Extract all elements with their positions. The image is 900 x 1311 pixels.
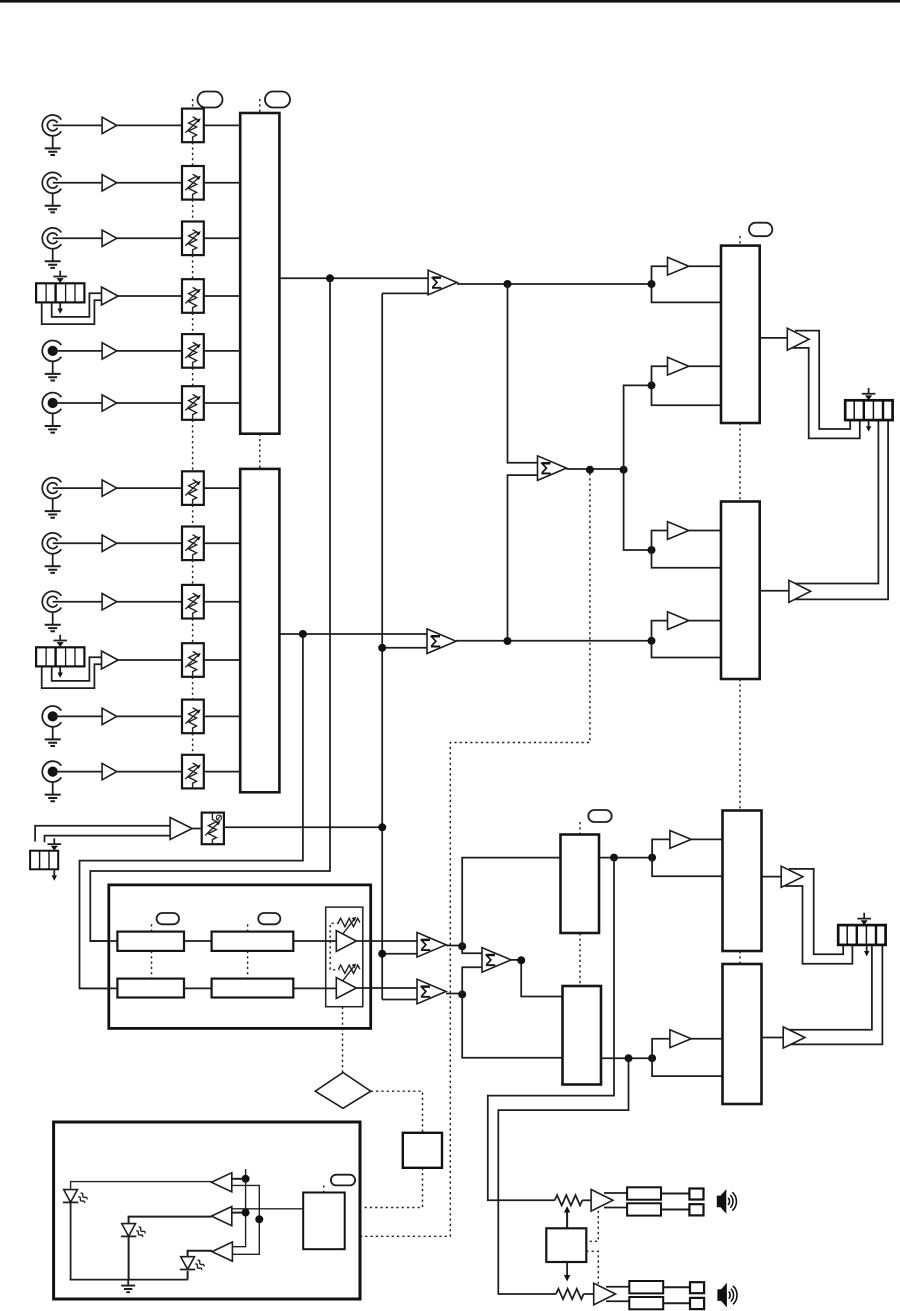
wire drivers2 to terminals [663,1287,690,1303]
wire group1 pair2 buffer to block [689,365,721,367]
EQ block row1 stage1 [117,932,184,951]
pot box ch5 level [182,334,204,368]
wire node down to monitor select 2 [462,994,562,1057]
wire bank2 tap down to EQ row2 [80,634,303,988]
level resistor speaker 1 [555,1195,583,1205]
pot element ch4 [185,287,201,312]
wire ch1 pot to selector [204,124,240,126]
wiper arrow down volume block [564,1262,570,1281]
junction effect bus at return [378,823,386,831]
wire group2 pair1 direct branch [652,550,722,568]
wire group2 pair2 buffer to block [689,620,721,622]
wire effect bus to U2 lower input [382,647,427,649]
pot box return level [202,813,224,845]
comparator amp level1 [211,1173,231,1192]
drain arrow below connector P1 [58,303,63,314]
drain arrow below connector P2 [58,667,63,678]
wire ch7 jack to buffer [53,487,102,489]
buffer amp group1 pair2 [668,357,689,375]
wire group2 output to line amp [760,590,789,592]
control oval group selector [749,223,772,237]
sum amp U1 (bank1 mix) [428,270,457,295]
junction U3 output / meter dash tap [586,466,594,474]
group select block 1 (main L) [721,246,760,423]
wire LED3 cathode to bus [187,1271,189,1280]
wire ch5 pot to selector [204,350,240,352]
junction monitor1 to speaker feed [610,854,618,862]
comparator amp level2 [211,1207,231,1226]
wire effect bus to U1 lower input [382,292,428,294]
junction monitor1 at rec select 1 [648,854,656,862]
wire group2 pair1 buffered branch [652,531,668,551]
wire bank2 selector output [279,633,427,635]
pot box ch8 level [182,527,204,561]
input jack J9 (ch11 RCA in) [42,706,61,746]
junction U3 output / group feeds [620,466,628,474]
buffer amp ch8 [102,535,117,551]
output header rec [838,925,885,945]
buffer amp group2 pair1 [668,522,689,540]
wire monitor2 output [601,1057,652,1059]
wire amp3 to LED3 [188,1251,212,1257]
wire bus tap to U4 lower input [382,953,417,955]
wire rec out B hot [789,944,872,1030]
monitor select block 1 [561,835,600,934]
wire rec2 buffer to block [691,1038,722,1040]
junction monitor2 at rec select 2 [648,1054,656,1062]
control oval pots bank1 [198,92,223,108]
drain arrow below connector P3 [52,870,57,881]
pot box ch11 level [182,700,204,734]
junction bus B tap [255,1215,263,1223]
wire ch11 jack to buffer [53,715,102,717]
wire ch8 pot to selector [204,542,240,544]
stub amp1 input to bus A [232,1178,246,1180]
buffer amp ch3 [102,230,117,246]
wire bank1 selector output [279,277,428,279]
buffer amp ch5 [102,343,117,359]
gang dashed EQ column2 [247,924,249,978]
wire ch9 pot to selector [204,601,240,603]
ground mark above connector P1 [53,271,67,283]
line amp main B [789,580,811,602]
dashed EQ mode to diamond [342,1007,344,1073]
amp EQ row1 [336,931,356,952]
buffer amp rec1 [670,831,691,849]
wire U1 output to group select [457,283,651,285]
LED indicator 2 [121,1224,146,1238]
wire main out A cold [790,348,860,439]
input jack J5 (ch6 RCA in) [42,393,61,433]
pot element ch2 [185,174,201,199]
wire rec2 direct branch [652,1058,722,1076]
line amp rec A [781,866,803,887]
terminal 1a [689,1189,703,1200]
wire ch10 pot to selector [204,659,240,661]
dashed oval to meter driver [323,1185,325,1192]
wire ch1 jack to buffer [53,124,102,126]
gang dashed EQ column1 [151,924,153,978]
buffer amp ch10 [102,651,119,669]
sum amp U3 (mono mix) [538,456,567,481]
wire group1 pair1 direct branch [652,284,722,302]
pot element ch5 [185,342,201,367]
wire ch3 buffer to pot [117,237,182,239]
junction U4 output node [458,942,466,950]
EQ gain amp sub-box [326,907,363,1007]
wire ch12 buffer to pot [117,771,182,773]
meter driver block [303,1193,345,1250]
wire U4 output [446,945,462,947]
pot box ch7 level [182,471,204,505]
wire ch6 buffer to pot [117,402,182,404]
pot box ch2 level [182,166,204,200]
wire rec1 direct branch [652,858,722,877]
wire speaker1 outputs [604,1193,627,1208]
ground symbol meter [121,1280,135,1293]
phase mark on return pot [216,815,221,820]
wire node jog to U6 lower input [462,967,482,994]
wire ch6 jack to buffer [53,402,102,404]
wire ch5 buffer to pot [117,350,182,352]
wire ch11 buffer to pot [117,715,182,717]
gang dashed link selector bank1 [259,99,261,469]
junction bus at U2 [378,644,386,652]
connector P2 (ch10 multi-pin input) [36,647,84,666]
wire ch12 jack to buffer [53,771,102,773]
pot element ch12 [185,763,201,788]
wire group2 pair2 buffered branch [652,621,668,641]
wire mono tap lower vertical [508,475,538,641]
junction U1 output / mono tap [504,280,512,288]
wire monitor2 to speaker amp 2 [498,1058,628,1294]
junction bank2 line at group2 [648,637,656,645]
wire amp2 to LED2 [129,1217,212,1224]
ground mark above main header [862,388,876,400]
sum amp U5 (monitor R) [417,979,446,1004]
wire EQ row2 into box [80,987,118,989]
wiper arrow up volume block [564,1206,570,1228]
wire node jog to U6 upper input [462,946,482,953]
wire group1 pair1 buffer to block [689,265,721,267]
buffer amp group1 pair1 [668,257,689,275]
pot box ch12 level [182,755,204,789]
comparator amp level3 [212,1242,232,1261]
input jack J4 (ch5 RCA in) [42,341,61,381]
stub amp2 input to bus A [232,1212,245,1214]
wire U5 output [446,993,462,995]
wire main out B cold [790,420,888,599]
wire ch5 jack to buffer [53,350,102,352]
driver block 2a [629,1281,663,1293]
wire ch8 jack to buffer [53,542,102,544]
wire group1 pair2 buffered branch [652,366,668,385]
wire ch9 jack to buffer [53,601,102,603]
output header main [845,400,892,420]
dashed detector to meter driver [345,1168,423,1208]
wire node up to monitor select 1 [462,858,560,947]
control oval EQ column1 [157,913,179,924]
input jack J7 (ch8 line in) [42,533,61,573]
drain arrow below main header [866,420,871,431]
wire U6 output to monitor select 2 [511,960,563,997]
wire bus end to U5 lower input [382,999,417,1001]
page top border [0,0,900,3]
wire mono to group2 pair1 [624,470,652,550]
terminal 2a [690,1282,704,1293]
wire monitor1 to speaker amp 1 [488,858,614,1201]
wire return hot to buffer [35,826,170,842]
buffer amp ch7 [102,480,117,496]
junction U5 output node [458,990,466,998]
level resistor speaker 2 [556,1289,584,1299]
wire LED1 cathode to bus [70,1202,72,1279]
wire amp1 to LED1 [71,1182,212,1190]
pot box ch6 level [182,386,204,420]
pot element return level [205,819,221,844]
drain arrow below rec header [864,945,869,956]
meter ground bus [70,1279,188,1281]
wiper stub return pot [211,813,213,820]
wire ch2 pot to selector [204,182,240,184]
wire EQ row2 block links [184,987,336,989]
junction U2 output / U3 lower feed [504,637,512,645]
driver block 2b [629,1297,663,1309]
ground mark above rec header [857,913,871,925]
input jack J1 (ch1 line in) [42,115,61,155]
wire ch4 connector hot to buffer [52,293,102,317]
pot box ch1 level [182,109,204,143]
ground mark above connector P3 [48,838,62,850]
wire ch12 pot to selector [204,771,240,773]
wire ch2 buffer to pot [117,182,182,184]
pot element ch6 [185,394,201,419]
wire rec out A hot [789,869,843,954]
line amp rec B [783,1027,805,1048]
terminal 1b [689,1204,703,1215]
buffer amp group2 pair2 [668,612,689,630]
buffer amp ch4 [102,287,119,305]
speaker icon 1 [717,1189,737,1214]
buffer amp ch9 [102,594,117,610]
wire U3 output [567,468,624,470]
wire ch8 buffer to pot [117,542,182,544]
wire driver to comparator amps [232,1208,303,1210]
driver block 1b [627,1203,661,1215]
EQ block row2 stage2 [212,979,294,998]
meter bus B vertical [232,1185,259,1254]
junction bus A amp2 [242,1209,250,1217]
wire rec1 buffered branch [652,839,670,857]
wire ch3 jack to buffer [53,237,102,239]
wire rec1 buffer to block [691,838,722,840]
sum amp U2 (bank2 mix) [427,629,456,654]
connector P3 cell dividers [40,851,49,869]
junction monitor2 to speaker feed [625,1054,633,1062]
buffer amp stereo return [170,818,192,840]
wire ch10 buffer to pot [118,659,182,661]
gain element EQ row2 [338,964,360,982]
wire ch3 pot to selector [204,237,240,239]
control oval selector bank1 [265,92,290,108]
junction bank1 output to EQ row1 [326,274,334,282]
wire ch7 pot to selector [204,487,240,489]
wire mono to group1 pair2 [624,385,652,469]
buffer amp ch12 [102,763,117,779]
wire U2 output to group select [456,640,652,642]
mode diamond switch [315,1073,371,1109]
pot element ch9 [185,593,201,618]
pot box ch10 level [182,643,204,677]
sum amp U6 (phones mix) [482,948,511,973]
wire EQ row2 output [356,987,417,989]
wire ch1 buffer to pot [117,124,182,126]
wire ch10 connector hot to buffer [52,657,102,681]
LED indicator 3 [180,1257,205,1271]
buffer amp ch11 [102,708,117,724]
buffer amp ch2 [102,175,117,191]
input jack J8 (ch9 line in) [42,591,61,631]
pot element ch1 [185,117,201,142]
wire rec1 output to line amp [762,876,782,878]
wire rec out A cold [785,886,852,964]
junction mono line at group2 [648,546,656,554]
pot element ch10 [185,651,201,676]
amp EQ row2 [336,978,356,999]
sum amp U4 (monitor L) [417,933,446,958]
control oval EQ column2 [258,913,280,924]
peak detector block [403,1133,442,1168]
speaker icon 2 [717,1283,737,1308]
wire return cold to buffer [45,836,171,843]
wire rec out B cold [786,944,882,1044]
control oval meter driver [331,1175,355,1186]
gain element EQ row1 [338,917,360,935]
wire return pot to effect bus [224,826,382,828]
pot element ch8 [185,535,201,560]
buffer amp ch1 [102,117,117,133]
input jack J10 (ch12 RCA in) [42,761,61,801]
wire main out A hot [795,331,850,429]
junction bus A amp1 [242,1175,250,1183]
wire ch10 connector cold to buffer [42,664,102,688]
junction bank1 line at group1 [648,280,656,288]
wire EQ row1 into box [90,940,117,942]
wire monitor1 output [599,857,652,859]
wire group2 pair1 buffer to block [689,530,721,532]
wire speaker2 outputs [606,1287,629,1302]
power amp speaker 1 [591,1190,613,1212]
wire group1 output to line amp [760,337,788,339]
wire return buffer to pot [192,828,202,830]
EQ section box [109,885,371,1029]
wire ch4 pot to selector [204,295,240,297]
pot element ch3 [185,230,201,255]
wire main out B hot [795,420,878,583]
record select block 1 [723,811,762,952]
line amp main A [787,328,809,350]
wire ch7 buffer to pot [117,487,182,489]
wire ch2 jack to buffer [53,182,102,184]
effect return bus vertical [381,293,383,999]
wire rec2 output to line amp [762,1037,784,1039]
wire mono tap upper vertical [508,284,538,463]
connector P3 (stereo return input) [30,851,58,870]
dashed volume control to amp2 [586,1251,598,1285]
wire group1 pair2 direct branch [652,385,722,405]
EQ block row1 stage2 [212,932,294,951]
wire resistor2 to amp [584,1293,594,1295]
input jack J6 (ch7 line in) [42,478,61,518]
power amp speaker 2 [594,1283,616,1305]
junction U6 output corner [517,956,525,964]
pot box ch3 level [182,222,204,256]
gang dashed EQ gain pair [330,923,339,970]
wire drivers1 to terminals [661,1194,689,1210]
monitor select block 2 [563,986,602,1085]
meter bus A vertical [233,1169,246,1247]
pot element ch11 [185,708,201,733]
dashed volume control to amp1 [586,1211,598,1242]
junction mono line at group1 [648,381,656,389]
ground mark above connector P2 [53,635,67,647]
wire ch11 pot to selector [204,715,240,717]
junction bank2 output to EQ row2 [299,630,307,638]
control oval monitor select [588,810,611,822]
wire bank1 tap down to EQ row1 [90,278,330,941]
wire LED2 cathode to bus [128,1237,130,1280]
connector P1 (ch4 multi-pin input) [36,283,84,302]
input selector block bank1 [240,113,279,434]
gang dashed monitor selects [579,822,581,986]
terminal 2b [690,1298,704,1309]
pot element ch7 [185,480,201,505]
dashed mono tap to meter driver [345,473,590,1236]
wire ch4 buffer to pot [118,295,182,297]
wire ch9 buffer to pot [117,601,182,603]
input jack J3 (ch3 line in) [42,228,61,268]
junction bus at U4 [378,950,386,958]
gang dashed link group selectors right column [739,236,741,964]
buffer amp rec2 [670,1030,691,1048]
pot box ch4 level [182,279,204,313]
input jack J2 (ch2 line in) [42,172,61,212]
driver block 1a [627,1187,661,1199]
wire ch6 pot to selector [204,402,240,404]
gang dashed link pots bank2 [192,420,194,755]
gang dashed link pots bank1 [192,99,194,386]
wire group1 pair1 buffered branch [652,266,668,284]
wire ch4 connector cold to buffer [42,300,102,324]
wire EQ row1 output [356,940,417,942]
LED indicator 1 [63,1190,88,1204]
input selector block bank2 [240,469,279,792]
wire resistor1 to amp [582,1199,591,1201]
meter section box [54,1122,360,1299]
group select block 2 (main R) [721,502,760,680]
buffer amp ch6 [102,395,117,411]
dashed diamond to peak detector [371,1091,423,1133]
record select block 2 [723,964,762,1104]
wire EQ row1 block links [184,940,336,942]
pot box ch9 level [182,585,204,619]
wire rec2 buffered branch [652,1039,670,1059]
wire group2 pair2 direct branch [652,641,722,658]
volume control block [546,1228,586,1262]
EQ block row2 stage1 [117,979,184,998]
